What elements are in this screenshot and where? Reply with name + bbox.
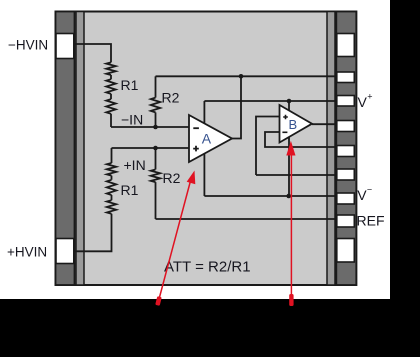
- wire R2 top stub (lower): [155, 148, 157, 170]
- black mask bottom: [0, 299, 420, 357]
- wire V- rail: [204, 195, 337, 197]
- pin 9 (right bottom): [337, 239, 355, 263]
- junction at V- rail/B supply: [286, 194, 291, 199]
- right lead-frame bar: [336, 12, 356, 286]
- svg-text:REF: REF: [357, 213, 385, 229]
- wire R2 top stub: [155, 76, 157, 97]
- svg-text:V: V: [357, 187, 367, 203]
- wire R2 bottom stub: [155, 112, 157, 127]
- pin 4 OUT: [337, 121, 355, 132]
- resistor R1 (upper): [106, 62, 115, 113]
- svg-text:−: −: [367, 185, 372, 195]
- annotation arrow 2 (to op-amp B): [290, 152, 292, 303]
- wire op-amp A bottom to V- rail: [203, 145, 205, 196]
- wire feedback net to pin: [156, 75, 338, 77]
- wire V+ rail: [204, 100, 337, 102]
- junction at V+ rail/B supply: [287, 99, 292, 104]
- junction at +IN/R2: [153, 146, 158, 151]
- black mask right: [390, 0, 420, 357]
- annotation arrow 1 (to R2/A input): [159, 179, 192, 301]
- wire op-amp B + input: [256, 117, 280, 176]
- left lead-frame bar: [56, 12, 75, 286]
- wire R1 top to +IN node: [111, 148, 113, 163]
- pin 6: [337, 169, 355, 180]
- svg-text:R2: R2: [162, 90, 180, 106]
- wire -IN to op-amp A: [111, 126, 189, 128]
- pin 2 (feedback): [337, 72, 355, 83]
- op-amp B: [280, 105, 313, 143]
- wire V+ to op-amp A top: [203, 101, 205, 130]
- wire +HVIN to R1: [74, 214, 112, 252]
- svg-text:V: V: [358, 94, 368, 110]
- pin -HVIN: [56, 34, 74, 59]
- pin 8 REF: [337, 215, 355, 227]
- svg-text:−HVIN: −HVIN: [8, 38, 48, 53]
- left die-edge strip: [76, 12, 84, 286]
- resistor R1 (lower): [107, 163, 116, 214]
- resistor R2 (upper): [151, 98, 160, 113]
- svg-text:ATT = R2/R1: ATT = R2/R1: [164, 258, 251, 275]
- wire R1 to -IN node: [110, 114, 112, 127]
- svg-text:R1: R1: [121, 77, 139, 93]
- wire V+ to op-amp B top: [288, 101, 290, 115]
- wire op-amp B - input feedback: [265, 132, 337, 147]
- wire R2 bottom to REF rail: [155, 182, 157, 219]
- pin 3 V+: [337, 96, 355, 107]
- svg-text:A: A: [202, 131, 212, 147]
- wire op-amp A output: [232, 76, 241, 138]
- wire B + input net to pin: [256, 174, 337, 176]
- pin 7 V-: [337, 193, 355, 204]
- junction at A output/feedback: [239, 74, 244, 79]
- IC package body U1: [56, 12, 357, 286]
- pin +HVIN: [56, 239, 74, 264]
- svg-text:−IN: −IN: [121, 112, 143, 128]
- svg-text:B: B: [289, 117, 298, 132]
- resistor R2 (lower): [151, 170, 160, 183]
- wire +IN to op-amp A: [112, 147, 190, 149]
- svg-text:+IN: +IN: [124, 157, 146, 173]
- pin 5 sense: [337, 146, 355, 157]
- svg-text:R1: R1: [121, 182, 139, 198]
- op-amp A: [189, 115, 232, 162]
- svg-text:R2: R2: [163, 170, 181, 186]
- wire -HVIN to R1: [74, 44, 111, 62]
- wire op-amp B output: [312, 123, 337, 125]
- wire op-amp B bottom to V- rail: [288, 128, 290, 196]
- right die-edge strip: [327, 12, 335, 286]
- wire REF rail: [156, 218, 338, 220]
- junction at -IN/R2: [153, 125, 158, 130]
- pin 1 (right top): [337, 34, 355, 57]
- svg-text:+HVIN: +HVIN: [7, 245, 47, 260]
- svg-text:+: +: [367, 92, 372, 102]
